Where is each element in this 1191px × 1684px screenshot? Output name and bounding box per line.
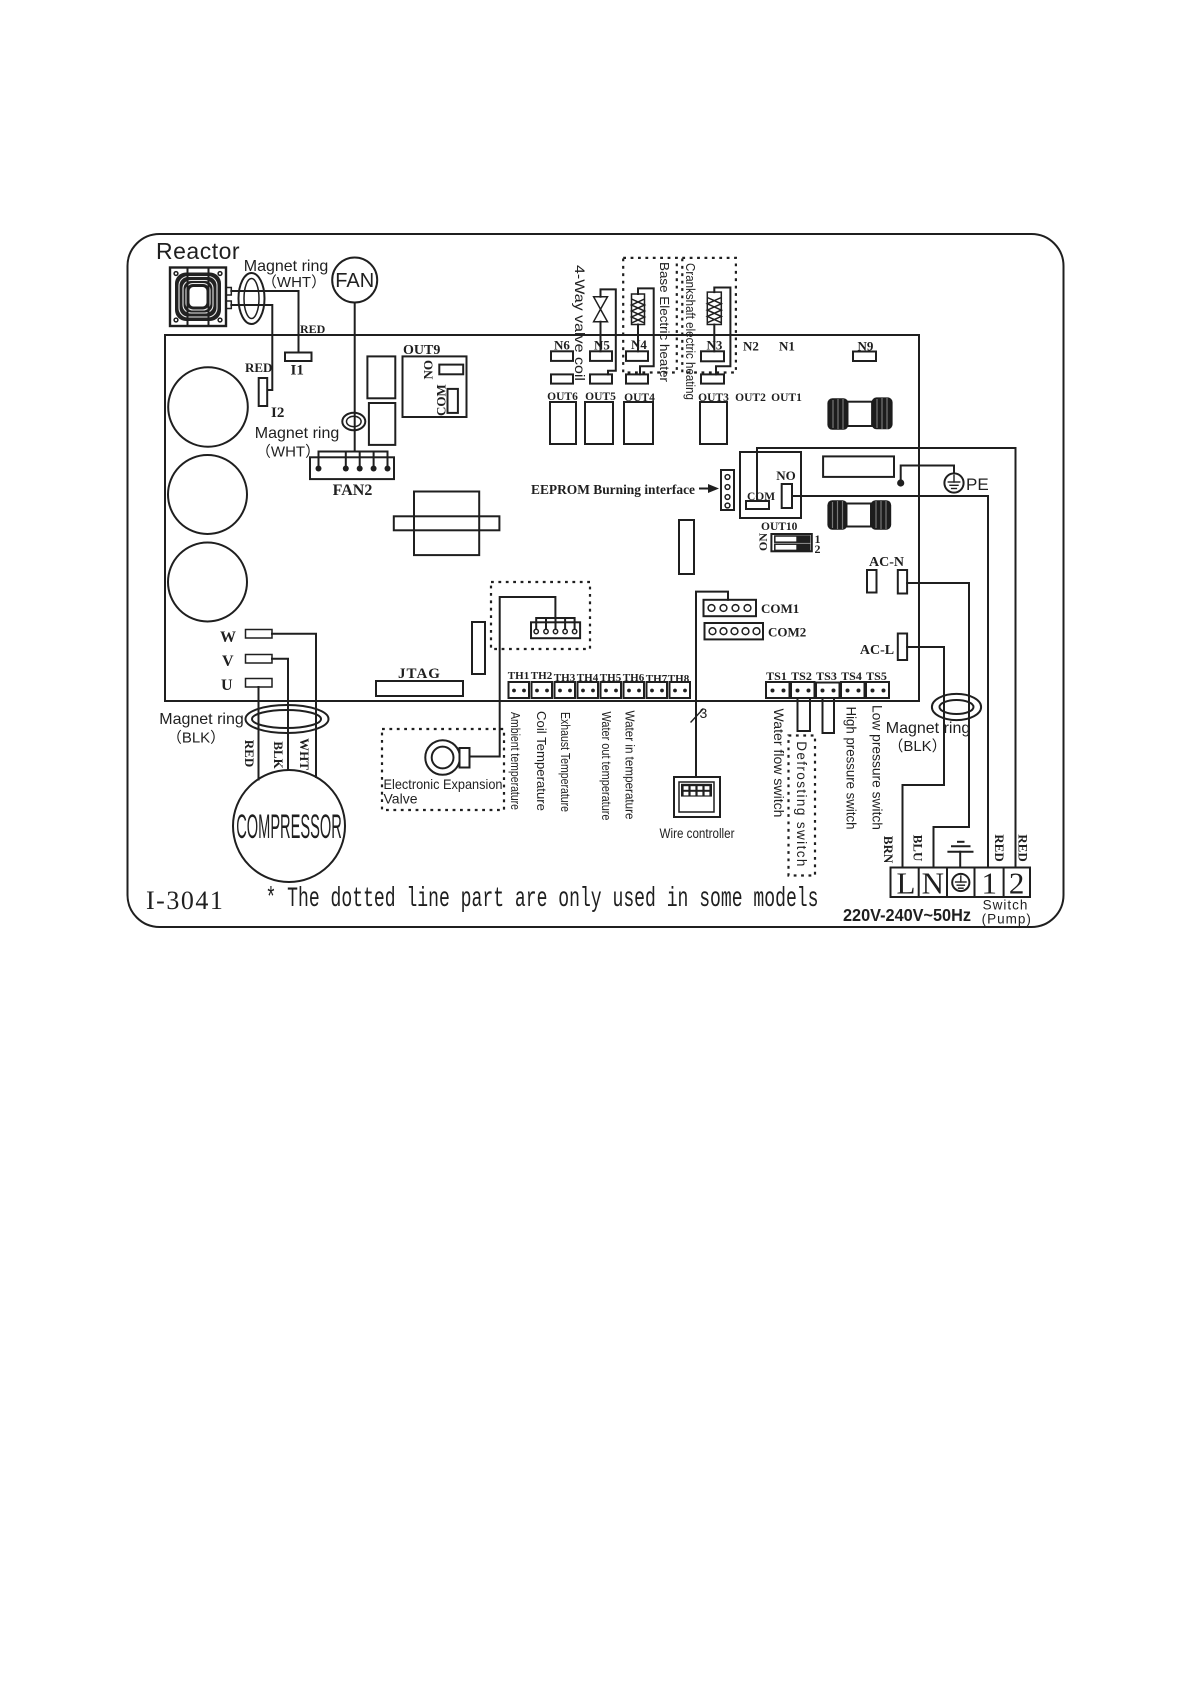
svg-text:I-3041: I-3041 <box>146 886 224 915</box>
capacitor circle 2 <box>168 455 247 534</box>
inductor component upper (black caps) <box>827 397 892 429</box>
terminal TH7 <box>647 682 668 698</box>
svg-text:（WHT）: （WHT） <box>262 274 326 291</box>
terminal N3 row1 <box>701 351 724 361</box>
svg-text:I1: I1 <box>291 363 304 379</box>
dotted box Crankshaft electric heating <box>682 258 736 373</box>
terminal TH8 <box>670 682 691 698</box>
DIP switch ON <box>756 532 820 556</box>
svg-text:TS2: TS2 <box>791 669 812 683</box>
junction dot to PE <box>897 479 904 486</box>
electronic expansion valve symbol <box>425 740 469 775</box>
terminal L <box>897 866 919 901</box>
svg-text:RED: RED <box>245 360 272 375</box>
svg-text:COMPRESSOR: COMPRESSOR <box>236 807 342 846</box>
svg-text:BLU: BLU <box>910 835 925 862</box>
svg-text:Water out temperature: Water out temperature <box>599 712 614 821</box>
terminal TS3 <box>816 683 840 699</box>
svg-text:N: N <box>922 866 944 901</box>
svg-text:FAN: FAN <box>335 270 374 292</box>
tall thin rectangle near TH1 <box>472 622 485 674</box>
svg-text:4-Way valve coil: 4-Way valve coil <box>572 265 587 381</box>
heater element N3 <box>707 292 721 324</box>
wire 4-way valve loop N5 <box>601 289 616 374</box>
terminal bar left of AC-N <box>867 570 877 593</box>
jumper loop TS3 <box>823 698 835 733</box>
relay OUT5 box <box>585 402 613 444</box>
arrow to EEPROM connector <box>700 484 719 493</box>
wire reactor lower to I2 <box>231 305 272 390</box>
terminal TH4 <box>578 682 599 698</box>
magnet ring BLK left (double ellipse) <box>246 705 329 733</box>
svg-text:Low pressure switch: Low pressure switch <box>869 705 884 830</box>
svg-text:High pressure switch: High pressure switch <box>843 707 858 830</box>
dotted box Base Electric heater <box>623 258 677 373</box>
IC cross component <box>394 492 500 556</box>
relay OUT10 box <box>740 452 801 518</box>
earth symbol PE <box>944 473 963 492</box>
svg-text:Defrosting switch: Defrosting switch <box>794 741 809 868</box>
capacitor circle 1 <box>168 367 248 447</box>
svg-text:NO: NO <box>420 360 435 380</box>
svg-text:I2: I2 <box>271 405 284 421</box>
svg-text:JTAG: JTAG <box>398 666 441 682</box>
reactor terminal tab lower <box>226 301 232 309</box>
magnet ring WHT upper (double ellipse) <box>239 273 265 324</box>
terminal N5 row1 <box>590 351 612 361</box>
svg-text:Base Electric heater: Base Electric heater <box>657 262 672 383</box>
svg-text:WHT: WHT <box>297 738 312 770</box>
svg-text:RED: RED <box>300 322 326 336</box>
svg-text:Crankshaft electric heating: Crankshaft electric heating <box>683 263 697 400</box>
terminal N6 row1 <box>551 351 573 361</box>
svg-text:2: 2 <box>1009 866 1025 901</box>
wire junction to PE <box>901 466 954 481</box>
terminal TS2 <box>791 682 815 698</box>
connector EEPROM 4-pin <box>721 470 734 510</box>
3-wire slash mark <box>691 709 703 722</box>
svg-text:TH7: TH7 <box>646 673 668 685</box>
PCB board outline <box>165 335 919 701</box>
svg-text:NO: NO <box>776 468 796 483</box>
terminal N9 <box>853 352 876 362</box>
relay OUT3 box <box>700 402 727 444</box>
svg-text:Water flow switch: Water flow switch <box>771 709 786 818</box>
svg-text:Ambient temperature: Ambient temperature <box>508 712 523 810</box>
terminal TH3 <box>555 682 576 698</box>
svg-text:TS5: TS5 <box>866 669 887 683</box>
connector FAN2 <box>310 452 394 480</box>
heater element N4 <box>632 294 645 325</box>
svg-text:BLK: BLK <box>271 741 286 769</box>
wire reactor upper to I1 <box>231 291 298 353</box>
reactor terminal tab upper <box>226 288 232 296</box>
wire NO relay to terminal 1 <box>792 496 988 868</box>
svg-text:N3: N3 <box>707 338 723 353</box>
wire U to compressor <box>258 687 260 780</box>
svg-text:2: 2 <box>815 542 821 556</box>
svg-text:N6: N6 <box>554 338 570 353</box>
svg-text:N5: N5 <box>594 338 610 353</box>
svg-text:COM1: COM1 <box>761 601 799 616</box>
svg-text:OUT1: OUT1 <box>771 392 802 404</box>
svg-text:OUT10: OUT10 <box>761 521 798 533</box>
dotted box Defrosting switch <box>789 736 816 876</box>
svg-text:Valve: Valve <box>384 791 418 807</box>
svg-text:U: U <box>221 677 233 694</box>
svg-text:AC-N: AC-N <box>869 555 904 570</box>
reactor L1 body <box>170 268 226 327</box>
svg-text:Water in temperature: Water in temperature <box>622 711 637 820</box>
magnet ring WHT small (on FAN wire) <box>342 413 365 430</box>
svg-text:AC-L: AC-L <box>860 643 894 658</box>
svg-text:Wire controller: Wire controller <box>660 826 735 841</box>
inductor component lower (black caps) <box>827 500 891 530</box>
svg-text:FAN2: FAN2 <box>333 482 373 499</box>
wire AC-N to terminal N (BLU) <box>907 583 969 868</box>
svg-text:W: W <box>220 629 236 646</box>
svg-text:PE: PE <box>966 475 989 494</box>
svg-text:BRN: BRN <box>881 836 896 864</box>
connector JTAG box <box>376 681 463 696</box>
terminal N <box>922 866 947 901</box>
svg-text:RED: RED <box>242 740 257 767</box>
svg-text:Coil Temperature: Coil Temperature <box>534 711 549 811</box>
svg-text:220V-240V~50Hz: 220V-240V~50Hz <box>843 905 971 925</box>
dotted box 6-pin connector (optional part) <box>491 582 590 649</box>
svg-text:Magnet ring: Magnet ring <box>159 711 244 728</box>
wire controller box <box>674 777 720 817</box>
svg-text:Reactor: Reactor <box>156 238 240 264</box>
svg-text:Switch: Switch <box>983 898 1029 913</box>
component rectangle (top right on PCB) <box>823 456 894 477</box>
svg-text:L: L <box>897 866 916 901</box>
tall thin rectangle right of EEPROM area <box>679 520 694 574</box>
svg-text:COM2: COM2 <box>768 625 806 640</box>
svg-text:（BLK）: （BLK） <box>888 738 946 755</box>
svg-text:Magnet ring: Magnet ring <box>244 258 329 275</box>
terminal TS1 <box>766 682 790 698</box>
current sensor I2 <box>259 378 268 406</box>
terminal N6 row2 <box>551 374 573 383</box>
jumper loop TS2 <box>798 698 811 731</box>
svg-text:TS1: TS1 <box>766 669 787 683</box>
svg-text:ON: ON <box>756 533 770 551</box>
svg-text:Magnet ring: Magnet ring <box>255 425 340 442</box>
wire heater to N4 terminal <box>637 325 639 352</box>
wire AC-L to terminal L (BRN) <box>903 647 945 868</box>
capacitor circle 3 <box>168 543 247 622</box>
svg-text:Exhaust Temperature: Exhaust Temperature <box>558 712 573 812</box>
svg-text:V: V <box>222 653 234 670</box>
svg-text:TS4: TS4 <box>841 669 862 683</box>
svg-text:N1: N1 <box>779 339 795 354</box>
relay OUT4 box <box>624 402 653 444</box>
wire COM1 to wire controller <box>696 592 728 777</box>
diagram outer border frame <box>128 234 1064 927</box>
wire heater loop N4 <box>638 288 654 374</box>
component rectangle above FAN2 (relay B) <box>369 403 395 445</box>
svg-text:3: 3 <box>700 705 708 721</box>
terminal 1 <box>981 866 1003 901</box>
connector COM2 <box>705 623 764 639</box>
svg-text:TS3: TS3 <box>816 669 837 683</box>
wire valve to N5 terminal <box>600 322 602 352</box>
terminal block outer <box>891 868 1031 898</box>
4-way valve symbol <box>594 297 608 322</box>
terminal N4 row2 <box>626 374 648 383</box>
wire heater loop N3 <box>714 288 730 375</box>
current sensor I1 <box>285 353 312 362</box>
svg-text:Magnet ring: Magnet ring <box>886 720 971 737</box>
relay OUT9 <box>403 343 467 417</box>
svg-text:N4: N4 <box>631 337 647 352</box>
terminal TS4 <box>841 682 865 698</box>
relay OUT6 box <box>550 402 576 444</box>
svg-text:1: 1 <box>981 866 997 901</box>
wire W to compressor <box>272 634 316 777</box>
svg-text:（BLK）: （BLK） <box>167 730 225 747</box>
terminal TH5 <box>601 682 622 698</box>
wire EEV to 6-pin connector <box>470 597 556 757</box>
terminal earth cell <box>952 868 974 898</box>
earth symbol above terminal block <box>948 842 972 868</box>
svg-text:EEPROM Burning interface: EEPROM Burning interface <box>531 482 695 497</box>
compressor circle <box>233 770 345 882</box>
svg-text:TH8: TH8 <box>668 673 690 685</box>
connector COM1 <box>704 600 757 616</box>
terminal TH1 <box>509 682 530 698</box>
terminal bar AC-L <box>898 634 907 661</box>
connector 6-pin inside dotted box <box>531 618 580 638</box>
fan motor FAN <box>332 258 377 303</box>
svg-text:RED: RED <box>1015 834 1030 861</box>
wire V to compressor <box>272 659 288 770</box>
terminal TS5 <box>866 682 889 698</box>
terminal N5 row2 <box>590 374 612 383</box>
wire FAN to FAN2 connector <box>354 303 356 452</box>
component rectangle above FAN2 (relay A) <box>367 356 395 398</box>
svg-text:RED: RED <box>992 834 1007 861</box>
svg-text:(Pump): (Pump) <box>982 912 1032 927</box>
svg-text:COM: COM <box>433 384 448 416</box>
terminal N4 row1 <box>626 351 648 361</box>
magnet ring BLK right (double ellipse) <box>932 694 981 720</box>
terminal bar AC-N <box>898 570 907 594</box>
terminal N3 row2 <box>701 374 724 383</box>
wire COM relay to terminal 2 <box>757 448 1016 868</box>
terminal TH6 <box>624 682 645 698</box>
svg-text:TH1: TH1 <box>508 670 529 682</box>
svg-text:* The dotted line part are onl: * The dotted line part are only used in … <box>266 884 819 915</box>
svg-text:OUT2: OUT2 <box>735 392 766 404</box>
terminal TH2 <box>532 682 553 698</box>
svg-text:TH2: TH2 <box>531 670 553 682</box>
dotted box Electronic Expansion Valve <box>382 729 504 810</box>
svg-text:N2: N2 <box>743 339 759 354</box>
wire heater to N3 terminal <box>713 325 715 352</box>
